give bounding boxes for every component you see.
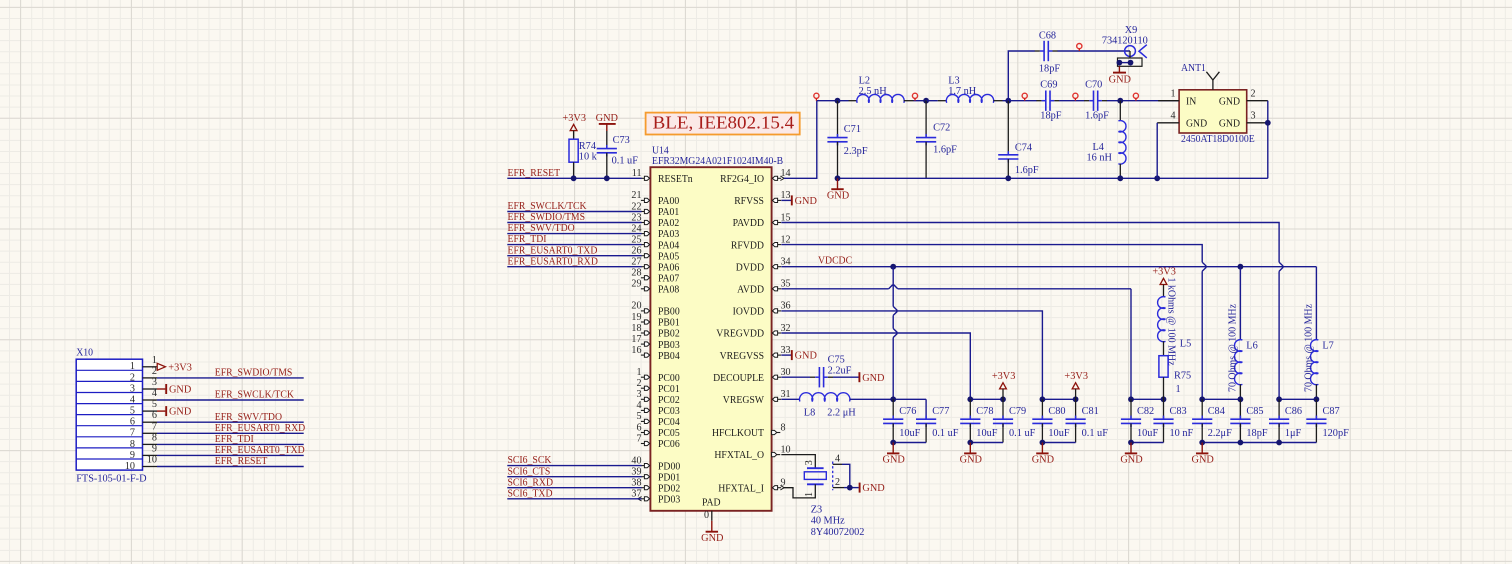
ANT1 value 2450AT18D0100E <box>1181 133 1255 145</box>
ANT1 pin 2 GND <box>1219 89 1256 108</box>
svg-text:2.5 nH: 2.5 nH <box>859 86 888 97</box>
junction VDCDC/L6 feed <box>1238 264 1244 270</box>
svg-text:23: 23 <box>631 212 641 223</box>
wire C80/C81 bottom rail <box>1042 442 1075 444</box>
inductor L6 <box>1234 267 1242 400</box>
net label EFR_RESET (X10) <box>215 455 268 467</box>
U14 pin 20 PB00 <box>631 301 679 318</box>
net label EFR_TDI (X10) <box>215 433 254 445</box>
svg-text:ANT1: ANT1 <box>1181 62 1206 74</box>
svg-text:+3V3: +3V3 <box>168 363 192 374</box>
U14 pin 7 PC06 <box>636 433 680 450</box>
junction C87 top <box>1314 396 1320 402</box>
svg-text:1: 1 <box>152 355 157 366</box>
capacitor C81 <box>1066 399 1086 442</box>
svg-text:IN: IN <box>1186 95 1197 107</box>
U14 pin 40 PD00 <box>507 455 680 472</box>
C74 value 1.6pF <box>1015 165 1039 176</box>
Z3 case pins dashed <box>832 462 834 491</box>
svg-text:X9: X9 <box>1125 25 1138 36</box>
C82 value 10uF <box>1137 428 1158 439</box>
R74 designator <box>579 141 596 152</box>
junction R74/EFR_RESET <box>571 175 577 181</box>
svg-text:6: 6 <box>636 422 641 433</box>
svg-text:2: 2 <box>1251 89 1256 100</box>
svg-text:+3V3: +3V3 <box>1064 371 1088 382</box>
wire C77 drop <box>925 399 927 419</box>
C78 value 10uF <box>976 428 997 439</box>
junction C80 gnd <box>1040 440 1046 446</box>
svg-text:VREGVDD: VREGVDD <box>716 328 764 340</box>
svg-text:+3V3: +3V3 <box>992 371 1016 382</box>
svg-text:34: 34 <box>781 257 791 268</box>
junction rail C74 <box>1005 175 1011 181</box>
C85 designator <box>1246 406 1263 417</box>
directive marker (L2 out) <box>912 93 917 100</box>
power GND (C82) <box>1120 443 1143 466</box>
net label EFR_RESET <box>508 167 561 179</box>
hop RFVDD over VDCDC <box>1202 262 1206 271</box>
junction C80 top <box>1040 396 1046 402</box>
svg-text:L2: L2 <box>859 75 870 86</box>
net label EFR_SWDIO/TMS <box>508 211 586 223</box>
svg-text:10uF: 10uF <box>899 428 920 439</box>
wire shared bottom rail C84-C87 <box>1202 442 1316 444</box>
svg-text:40 MHz: 40 MHz <box>811 516 845 527</box>
svg-text:120pF: 120pF <box>1323 428 1350 439</box>
net label EFR_SWV/TDO <box>508 222 575 234</box>
capacitor C68 <box>1035 41 1058 61</box>
svg-text:1: 1 <box>1170 89 1175 100</box>
U14 pin 34 DVDD <box>736 257 791 274</box>
svg-text:10uF: 10uF <box>1137 428 1158 439</box>
svg-text:39: 39 <box>631 467 641 478</box>
X10 pin 5 <box>130 399 165 416</box>
svg-text:31: 31 <box>781 389 791 400</box>
junction C78 top <box>967 396 973 402</box>
svg-text:GND: GND <box>701 533 724 544</box>
svg-text:734120110: 734120110 <box>1102 36 1148 47</box>
svg-text:GND: GND <box>795 351 818 362</box>
wire VREGVSS to GND <box>781 354 791 356</box>
capacitor C77 <box>916 416 936 443</box>
wire C70 to ANT1 pin 1 <box>1107 100 1179 102</box>
L6 designator <box>1246 341 1257 352</box>
svg-text:7: 7 <box>152 421 157 432</box>
U14 pin 31 VREGSW <box>723 389 791 406</box>
hop VDCDC drop over VREGVDD <box>893 329 897 338</box>
svg-text:10 k: 10 k <box>579 151 598 162</box>
wire net VDCDC (DVDD rail) <box>781 266 1316 268</box>
U14 pin 2 PC01 <box>636 378 679 395</box>
svg-text:7: 7 <box>636 433 641 444</box>
C80 value 10uF <box>1048 428 1069 439</box>
svg-text:3: 3 <box>804 460 815 465</box>
junction Z3 pin2 <box>847 485 853 491</box>
svg-text:EFR_RESET: EFR_RESET <box>215 455 268 467</box>
U14 pin 16 PB04 <box>631 345 680 362</box>
wire ANT1 pin2 <box>1247 101 1268 179</box>
C83 designator <box>1170 406 1187 417</box>
svg-text:PC06: PC06 <box>658 438 680 450</box>
wire ANT1 pin3 <box>1247 122 1268 124</box>
svg-text:L6: L6 <box>1246 341 1257 352</box>
wire DECOUPLE to C75 <box>781 376 810 378</box>
svg-text:AVDD: AVDD <box>737 284 764 296</box>
svg-text:DECOUPLE: DECOUPLE <box>713 372 764 384</box>
svg-text:L7: L7 <box>1322 341 1333 352</box>
wire VDCDC vertical drop <box>892 267 894 400</box>
svg-text:5: 5 <box>636 411 641 422</box>
C86 designator <box>1285 406 1302 417</box>
junction C85 bottom <box>1238 440 1244 446</box>
title frame BLE, IEE802.15.4 <box>646 113 800 135</box>
Z3 pin 4 <box>833 454 850 488</box>
U14 pin 8 HFCLKOUT <box>712 422 786 439</box>
U14 pin 25 PA04 <box>507 234 680 251</box>
wire C71 to L2 <box>838 100 858 102</box>
X10 designator <box>76 347 93 359</box>
L4 value 16 nH <box>1087 152 1113 163</box>
capacitor C70 <box>1084 91 1107 111</box>
resistor R75 <box>1159 356 1168 400</box>
C81 designator <box>1082 406 1099 417</box>
capacitor C82 <box>1121 399 1141 442</box>
U14 pin 33 VREGVSS <box>720 345 791 362</box>
X10 pin 2 <box>130 366 304 383</box>
X10 pin 4 <box>130 388 304 405</box>
svg-text:C74: C74 <box>1015 142 1032 153</box>
wire L8 to C76/C77 rail <box>850 398 927 400</box>
C71 designator <box>844 124 861 135</box>
U14 pin 22 PA01 <box>507 201 679 218</box>
C70 value 1.6pF <box>1085 111 1109 122</box>
L2 value 2.5 nH <box>859 86 888 97</box>
wire VREGSW to L8 <box>781 398 800 400</box>
svg-text:RFVDD: RFVDD <box>731 239 764 251</box>
capacitor C83 <box>1153 399 1173 442</box>
power +3V3 (R74) <box>562 113 586 131</box>
wire C72 to L3 <box>926 100 947 102</box>
C77 value 0.1 uF <box>932 428 959 439</box>
junction VREGSW node <box>890 396 896 402</box>
L8 designator <box>804 407 815 418</box>
svg-text:70 Ohms @ 100 MHz: 70 Ohms @ 100 MHz <box>1304 304 1315 392</box>
svg-text:10: 10 <box>147 455 157 466</box>
wire C84/C85 top rail <box>1202 398 1240 400</box>
svg-text:4: 4 <box>636 400 641 411</box>
junction C83 top <box>1161 396 1167 402</box>
svg-text:6: 6 <box>152 410 157 421</box>
C85 value 18pF <box>1246 428 1267 439</box>
svg-text:29: 29 <box>631 279 641 290</box>
svg-text:HFXTAL_I: HFXTAL_I <box>718 482 764 494</box>
inductor L3 <box>946 94 993 102</box>
svg-text:17: 17 <box>631 334 641 345</box>
antenna ANT1 body <box>1179 90 1247 133</box>
U14 pin 18 PB02 <box>631 323 679 340</box>
wire ANT1 pin4 to ground rail <box>1157 123 1179 179</box>
svg-text:3: 3 <box>1251 111 1256 122</box>
svg-text:Z3: Z3 <box>811 504 822 515</box>
svg-text:7: 7 <box>130 428 135 439</box>
junction C82 top <box>1128 396 1134 402</box>
U14 pin 5 PC04 <box>636 411 680 428</box>
svg-text:DVDD: DVDD <box>736 261 764 273</box>
svg-text:EFR_SWDIO/TMS: EFR_SWDIO/TMS <box>215 367 292 379</box>
Z3 pin 2 <box>833 477 859 488</box>
svg-text:2: 2 <box>130 372 135 383</box>
wire HFXTAL_I to crystal <box>784 484 816 498</box>
U14 pin 39 PD01 <box>507 467 680 484</box>
junction C79 top <box>1000 396 1006 402</box>
power GND (PAD) <box>701 521 724 544</box>
net label SCI6_RXD <box>508 476 554 488</box>
wire PAVDD rail <box>781 223 1279 400</box>
U14 pin 24 PA03 <box>507 223 679 240</box>
svg-text:EFR_SWCLK/TCK: EFR_SWCLK/TCK <box>215 389 294 401</box>
X10 pin 1 <box>130 355 157 372</box>
junction ANT1 pin3 <box>1265 120 1271 126</box>
junction C84 top <box>1199 396 1205 402</box>
net label EFR_EUSART0_RXD <box>508 255 598 267</box>
wire C78/C79 bottom rail <box>970 442 1003 444</box>
svg-text:18: 18 <box>631 323 641 334</box>
U14 pin 0 PAD <box>704 510 712 521</box>
C72 designator <box>933 122 950 133</box>
L3 designator <box>948 75 959 86</box>
C76 designator <box>899 406 916 417</box>
svg-text:C86: C86 <box>1285 406 1302 417</box>
svg-text:6: 6 <box>130 417 135 428</box>
C80 designator <box>1048 406 1065 417</box>
directive marker (ANT feed) <box>1133 93 1138 100</box>
svg-text:GND: GND <box>1109 75 1132 86</box>
U14 pin 19 PB01 <box>631 312 679 329</box>
svg-text:1: 1 <box>130 361 135 372</box>
svg-text:2.2 μH: 2.2 μH <box>827 407 856 418</box>
svg-text:PD03: PD03 <box>658 494 680 506</box>
crystal Z3 <box>804 468 826 484</box>
wire C78/C79 top rail <box>970 398 1003 400</box>
svg-text:C84: C84 <box>1208 406 1225 417</box>
U14 pin 17 PB03 <box>631 334 679 351</box>
svg-text:GND: GND <box>169 385 192 396</box>
wire L3 to node <box>994 100 1009 102</box>
X10 pin 8 <box>130 432 304 449</box>
op IC U14 EFR32MG24 body <box>650 167 771 511</box>
Z3 value 40 MHz <box>811 516 845 527</box>
svg-text:SCI6_TXD: SCI6_TXD <box>508 487 553 499</box>
svg-text:8: 8 <box>130 439 135 450</box>
svg-text:28: 28 <box>631 268 641 279</box>
svg-text:10uF: 10uF <box>976 428 997 439</box>
svg-text:L3: L3 <box>948 75 959 86</box>
svg-text:GND: GND <box>1186 118 1207 130</box>
svg-text:GND: GND <box>169 407 192 418</box>
svg-text:L8: L8 <box>804 407 815 418</box>
power GND (C78) <box>960 443 983 466</box>
wire VREGVDD rail <box>781 333 970 399</box>
power GND (VREGVSS) <box>792 350 818 362</box>
directive marker (C69 in) <box>1022 93 1027 100</box>
X9 designator <box>1125 25 1138 36</box>
net label SCI6_SCK <box>508 454 552 466</box>
resistor R74 <box>569 131 578 179</box>
svg-text:C73: C73 <box>613 135 630 146</box>
C79 designator <box>1009 406 1026 417</box>
power GND (DECOUPLE) <box>859 372 885 384</box>
C72 value 1.6pF <box>933 145 957 156</box>
net label SCI6_CTS <box>508 465 551 477</box>
svg-text:1: 1 <box>636 367 641 378</box>
hop AVDD over VDCDC drop <box>889 285 898 289</box>
C75 designator <box>828 354 845 365</box>
svg-text:HFCLKOUT: HFCLKOUT <box>712 427 764 439</box>
hop PAVDD over VDCDC <box>1279 262 1283 271</box>
L2 designator <box>859 75 870 86</box>
C87 designator <box>1323 406 1340 417</box>
svg-text:35: 35 <box>781 279 791 290</box>
svg-text:10 nF: 10 nF <box>1170 428 1194 439</box>
svg-text:C78: C78 <box>976 406 993 417</box>
junction L4 top <box>1117 98 1123 104</box>
svg-text:4: 4 <box>130 394 135 405</box>
svg-text:0.1 uF: 0.1 uF <box>1009 428 1036 439</box>
junction C71 top <box>835 98 841 104</box>
svg-text:+3V3: +3V3 <box>562 113 586 124</box>
svg-text:C81: C81 <box>1082 406 1099 417</box>
svg-text:GND: GND <box>862 483 885 494</box>
C87 value 120pF <box>1323 428 1350 439</box>
power +3V3 (L5) <box>1152 267 1176 285</box>
U14 pin 3 PC02 <box>636 389 679 406</box>
svg-text:GND: GND <box>1192 455 1215 466</box>
svg-text:GND: GND <box>827 191 850 202</box>
svg-text:2: 2 <box>152 366 157 377</box>
junction C72 top <box>923 98 929 104</box>
wire C68 to X9 <box>1058 50 1131 52</box>
power +3V3 (C81) <box>1064 371 1088 399</box>
C73 value 0.1 uF <box>612 156 639 167</box>
U14 designator label <box>652 144 669 156</box>
R75 value 1 <box>1176 384 1181 395</box>
C77 designator <box>932 406 949 417</box>
U14 pin 10 HFXTAL_O <box>714 444 790 461</box>
wire L2 to C72 <box>904 100 926 102</box>
svg-text:16 nH: 16 nH <box>1087 152 1113 163</box>
power GND (C84) <box>1192 443 1215 466</box>
capacitor C79 <box>993 399 1013 442</box>
svg-text:3: 3 <box>130 383 135 394</box>
junction C81 top <box>1073 396 1079 402</box>
U14 pin 37 PD03 <box>507 489 680 506</box>
junction C86 bottom <box>1276 440 1282 446</box>
svg-text:RESETn: RESETn <box>658 173 693 185</box>
U14 pin 29 PA08 <box>631 279 679 296</box>
svg-text:FTS-105-01-F-D: FTS-105-01-F-D <box>76 473 147 484</box>
svg-text:VREGSW: VREGSW <box>723 394 765 406</box>
capacitor C72 <box>916 101 936 179</box>
U14 pin 27 PA06 <box>507 257 680 274</box>
power GND (above C73) <box>596 113 619 131</box>
svg-text:10uF: 10uF <box>1048 428 1069 439</box>
U14 pin 13 RFVSS <box>734 190 790 207</box>
connector X9 symbol <box>1117 45 1147 67</box>
svg-text:5: 5 <box>130 406 135 417</box>
power GND (Z3) <box>860 483 886 495</box>
capacitor C69 <box>1036 91 1059 111</box>
svg-text:9: 9 <box>130 450 135 461</box>
svg-text:11: 11 <box>632 168 642 179</box>
svg-text:GND: GND <box>960 455 983 466</box>
power GND (RFVSS) <box>792 195 818 207</box>
L3 value 1.7 nH <box>948 86 977 97</box>
capacitor C78 <box>960 399 980 442</box>
wire HFXTAL_O to crystal <box>781 455 815 468</box>
wire C82/C83 bottom rail <box>1131 442 1164 444</box>
X10 value FTS-105-01-F-D <box>76 473 147 484</box>
svg-text:C77: C77 <box>932 406 949 417</box>
svg-text:C68: C68 <box>1039 31 1056 42</box>
svg-text:19: 19 <box>631 312 641 323</box>
junction C86 top <box>1276 396 1282 402</box>
svg-text:2.3pF: 2.3pF <box>844 146 868 157</box>
svg-text:24: 24 <box>631 223 641 234</box>
C82 designator <box>1137 406 1154 417</box>
C76 value 10uF <box>899 428 920 439</box>
svg-text:1.6pF: 1.6pF <box>1085 111 1109 122</box>
svg-text:8: 8 <box>152 432 157 443</box>
svg-text:GND: GND <box>1032 455 1055 466</box>
net label VDCDC <box>818 255 852 267</box>
svg-text:C82: C82 <box>1137 406 1154 417</box>
C71 value 2.3pF <box>844 146 868 157</box>
svg-text:C83: C83 <box>1170 406 1187 417</box>
svg-text:PB04: PB04 <box>658 350 680 362</box>
capacitor C80 <box>1032 399 1052 442</box>
svg-text:9: 9 <box>152 443 157 454</box>
svg-text:1: 1 <box>1176 384 1181 395</box>
net label EFR_EUSART0_RXD (X10) <box>215 422 305 434</box>
svg-text:PAD: PAD <box>702 497 721 509</box>
svg-text:70 Ohms @ 100 MHz: 70 Ohms @ 100 MHz <box>1227 304 1238 392</box>
U14 pin 14 RF2G4_IO <box>720 168 790 185</box>
svg-text:GND: GND <box>596 113 619 124</box>
connector X10 body <box>76 359 142 470</box>
junction C78 gnd <box>967 440 973 446</box>
capacitor C76 <box>883 399 903 442</box>
svg-text:0.1 uF: 0.1 uF <box>932 428 959 439</box>
U14 pin 23 PA02 <box>507 212 679 229</box>
svg-text:GND: GND <box>1219 118 1240 130</box>
inductor L7 <box>1310 267 1318 400</box>
Z3 pin 1 number <box>804 492 815 497</box>
svg-text:8: 8 <box>781 422 786 433</box>
junction rail L4 <box>1117 175 1123 181</box>
svg-text:GND: GND <box>1120 455 1143 466</box>
X10 pin 6 <box>130 410 304 427</box>
power GND (C80) <box>1032 443 1055 466</box>
svg-text:GND: GND <box>795 196 818 207</box>
U14 pin 30 DECOUPLE <box>713 367 790 384</box>
C83 value 10 nF <box>1170 428 1194 439</box>
junction rail C71 <box>835 175 841 181</box>
svg-text:3: 3 <box>152 377 157 388</box>
capacitor C85 <box>1230 399 1250 442</box>
svg-text:1μF: 1μF <box>1285 428 1302 439</box>
junction C84 gnd <box>1199 440 1205 446</box>
